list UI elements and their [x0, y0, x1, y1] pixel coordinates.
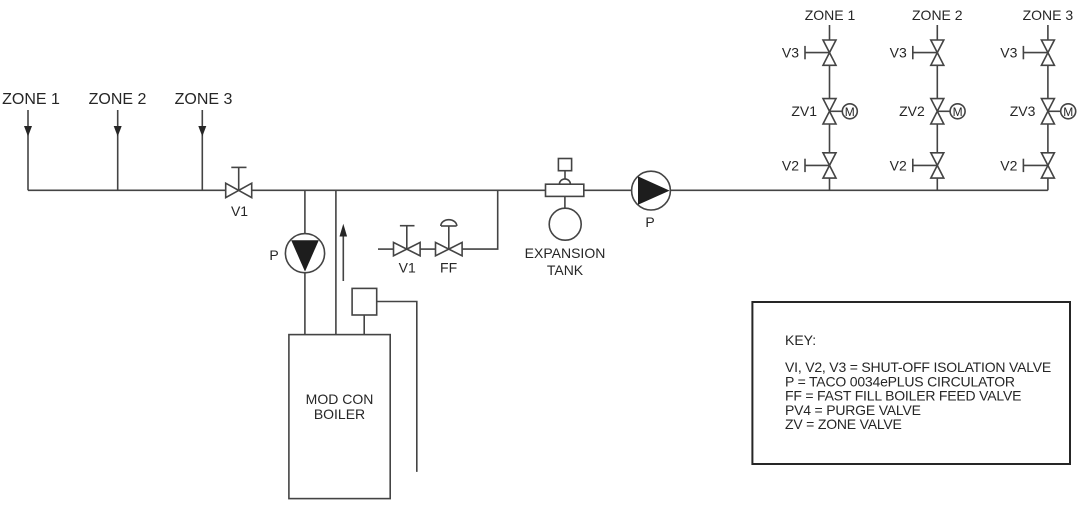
zone valve ZV2 — [931, 99, 944, 112]
svg-text:V3: V3 — [1000, 45, 1017, 61]
wire zone 1 return drop — [27, 110, 29, 190]
wire main return pipe left — [28, 189, 226, 191]
valve V2 zone 2 — [931, 153, 944, 166]
wire zone 3 mid upper — [1047, 65, 1049, 98]
expansion tank assembly — [525, 159, 606, 279]
svg-text:ZONE 3: ZONE 3 — [175, 91, 233, 108]
valve V2 zone 1 — [823, 153, 836, 166]
svg-text:TANK: TANK — [547, 262, 584, 278]
svg-text:M: M — [845, 105, 855, 119]
wire zone 2 return drop — [117, 110, 119, 190]
svg-text:ZONE 2: ZONE 2 — [89, 91, 147, 108]
wire zone 1 bottom — [829, 178, 831, 190]
wire zone 2 mid upper — [936, 65, 938, 98]
key box — [752, 302, 1070, 464]
svg-text:ZONE 1: ZONE 1 — [805, 7, 856, 23]
zone branch 1 — [782, 7, 857, 190]
svg-text:V1: V1 — [231, 203, 248, 219]
zone valve ZV1 — [823, 99, 836, 112]
svg-text:V3: V3 — [782, 45, 799, 61]
wire feed line left stub — [378, 248, 394, 250]
air vent box — [558, 159, 571, 171]
svg-text:V2: V2 — [890, 157, 907, 173]
arrow flow up — [340, 224, 348, 281]
arrow zone 2 flow — [114, 126, 122, 137]
svg-text:ZONE 2: ZONE 2 — [912, 7, 963, 23]
wire relief pipe — [377, 302, 417, 472]
svg-text:EXPANSION: EXPANSION — [525, 245, 606, 261]
pump P system circulator — [632, 171, 671, 230]
wire zone 3 return drop — [201, 110, 203, 190]
svg-text:V1: V1 — [399, 260, 416, 276]
svg-text:MOD CON: MOD CON — [306, 391, 374, 407]
svg-text:ZONE 3: ZONE 3 — [1023, 7, 1074, 23]
wire zone 1 mid lower — [829, 124, 831, 153]
wire zone 3 top — [1047, 25, 1049, 40]
wire feed to main pipe — [462, 190, 498, 249]
svg-text:BOILER: BOILER — [314, 406, 365, 422]
valve FF fast-fill — [436, 220, 463, 276]
svg-text:ZV = ZONE VALVE: ZV = ZONE VALVE — [785, 416, 902, 432]
wire boiler supply drop — [304, 190, 306, 233]
wire boiler return riser — [335, 190, 337, 334]
valve V1 (main shut-off) — [226, 167, 252, 219]
wire air vent stem — [564, 171, 566, 180]
boiler MOD CON — [289, 335, 390, 499]
wire zone 2 mid lower — [936, 124, 938, 153]
wire control box to boiler — [363, 315, 365, 335]
wire tank drop — [564, 196, 566, 208]
svg-text:KEY:: KEY: — [785, 332, 816, 348]
zone branch 3 — [1000, 7, 1075, 190]
svg-text:ZV2: ZV2 — [899, 103, 925, 119]
svg-text:ZONE 1: ZONE 1 — [2, 91, 60, 108]
node ZONE 3 return label — [175, 91, 233, 108]
zone branch 2 — [890, 7, 965, 190]
arrow zone 3 flow — [198, 126, 206, 137]
wire zone 2 bottom — [936, 178, 938, 190]
pump P boiler circulator — [269, 234, 324, 273]
expansion tank — [549, 208, 581, 240]
wire zone 2 top — [936, 25, 938, 40]
node ZONE 1 return label — [2, 91, 60, 108]
svg-text:FF: FF — [440, 260, 457, 276]
wire zone 3 mid lower — [1047, 124, 1049, 153]
svg-text:M: M — [1063, 105, 1073, 119]
wire zone 1 mid upper — [829, 65, 831, 98]
wire main pipe middle — [252, 189, 632, 191]
arrow zone 1 flow — [24, 126, 32, 137]
valve V3 zone 2 — [931, 40, 944, 53]
svg-text:ZV1: ZV1 — [791, 103, 817, 119]
air scoop dome — [559, 179, 570, 184]
svg-text:V3: V3 — [890, 45, 907, 61]
svg-text:V2: V2 — [1000, 157, 1017, 173]
wire zone 1 top — [829, 25, 831, 40]
valve V3 zone 1 — [823, 40, 836, 53]
wire main supply pipe right — [670, 189, 1048, 191]
control box — [352, 288, 377, 315]
zone valve ZV3 — [1041, 99, 1054, 112]
valve V1 (feed shut-off) — [394, 226, 421, 276]
wire pump to boiler — [304, 273, 306, 335]
valve V3 zone 3 — [1041, 40, 1054, 53]
svg-text:V2: V2 — [782, 157, 799, 173]
air separator body — [546, 184, 584, 196]
wire zone 3 bottom — [1047, 178, 1049, 190]
wire between V1 and FF — [420, 248, 435, 250]
svg-text:ZV3: ZV3 — [1010, 103, 1036, 119]
valve V2 zone 3 — [1041, 153, 1054, 166]
svg-text:M: M — [953, 105, 963, 119]
svg-text:P: P — [269, 247, 278, 263]
node ZONE 2 return label — [89, 91, 147, 108]
svg-text:P: P — [645, 214, 654, 230]
